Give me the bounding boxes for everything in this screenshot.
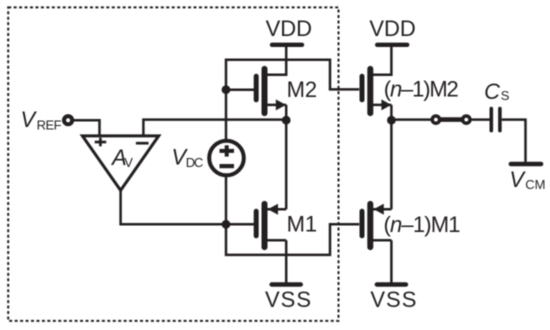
svg-text:VSS: VSS (265, 287, 311, 312)
wire: op-amp - input feedback riser to drain node row (143, 120, 286, 136)
svg-text:(n–1)M2: (n–1)M2 (384, 77, 459, 102)
svg-text:CM: CM (525, 177, 545, 192)
supply VDD left bar (272, 43, 302, 47)
(n-1)M2 gate bar (360, 76, 365, 100)
op-amp U1 (AV) (82, 136, 158, 191)
supply VDD right bar (377, 43, 407, 47)
wire: VDC bottom to gate node B (225, 176, 228, 224)
(n-1)M2 drain line (372, 104, 392, 107)
wire: node D right to switch (391, 118, 431, 121)
M1 gate bar (254, 211, 259, 236)
(n-1)M2 source line (372, 74, 392, 77)
svg-text:VDD: VDD (369, 16, 415, 41)
M1 source stem down (285, 240, 288, 283)
(n-1)M1 drain arrow (374, 204, 384, 215)
(n-1)M2 drain corner down to node D (390, 105, 393, 120)
M1 drain line (266, 208, 286, 211)
node D: output node junction dot (387, 116, 396, 125)
M2 drain arrow (276, 99, 286, 110)
wire: node C down to M1 drain (285, 120, 288, 209)
transistor M1 (NMOS) (226, 204, 286, 283)
op-amp - input mark (136, 142, 149, 145)
(n-1)M1 channel bar (367, 204, 373, 247)
M2 channel bar (262, 69, 268, 113)
transistor (n-1)M1 (NMOS) (362, 204, 391, 283)
svg-text:DC: DC (186, 155, 204, 170)
svg-text:VDD: VDD (266, 16, 312, 41)
wire: gate link from node B down and over to (n-1)M1 gate (226, 224, 359, 255)
svg-text:M2: M2 (287, 77, 318, 102)
(n-1)M1 source stem down (390, 240, 393, 283)
switch contact right (461, 114, 472, 125)
VDC minus mark (220, 164, 235, 168)
svg-text:S: S (501, 88, 510, 103)
op-amp + input mark (95, 138, 107, 147)
svg-text:VSS: VSS (370, 287, 416, 312)
M2 gate wire (226, 88, 255, 91)
node B: op-amp out / M1 gate 4-way junction dot (222, 220, 231, 229)
M2 gate bar (254, 76, 259, 100)
terminal VREF (62, 114, 74, 126)
svg-text:V: V (509, 167, 526, 192)
wire: switch to capacitor (471, 118, 490, 121)
transistor (n-1)M2 (PMOS) (362, 69, 391, 120)
node A: M2 gate / VDC top junction dot (222, 85, 231, 94)
VDC plus mark (220, 145, 235, 156)
M1 channel bar (262, 204, 268, 247)
switch contact left (431, 114, 442, 125)
(n-1)M2 channel bar (367, 69, 373, 113)
M2 drain line (266, 104, 286, 107)
node C: M1/M2 drain junction dot (282, 116, 291, 125)
M1 drain arrow (268, 204, 278, 215)
M1 gate wire (226, 223, 255, 226)
wire: op-amp output down and right to gate node (121, 190, 226, 224)
terminal VCM bar (511, 162, 541, 167)
ground VSS right bar (377, 282, 406, 286)
wire: node A down to VDC plus terminal (225, 90, 228, 140)
M1 source line (266, 239, 286, 242)
CS right plate (498, 109, 502, 131)
(n-1)M1 drain line (372, 208, 392, 211)
transistor M2 (PMOS) (226, 69, 286, 120)
M2 drain corner down to node C (285, 105, 288, 120)
wire: node D down to (n-1)M1 drain (390, 120, 393, 209)
svg-text:V: V (124, 155, 133, 170)
switch lever (439, 117, 464, 122)
wire: VDD left stem (285, 45, 288, 76)
(n-1)M2 drain arrow (381, 99, 391, 110)
wire: VREF terminal to op-amp + input (72, 120, 100, 136)
wire: gate link from node A up and over to (n-1)M2 gate (226, 60, 359, 90)
M2 source line (266, 74, 286, 77)
(n-1)M1 source line (372, 239, 392, 242)
capacitor CS (491, 109, 500, 131)
ground VSS left bar (272, 282, 301, 286)
svg-text:M1: M1 (287, 212, 318, 237)
wire: VDD right stem (390, 45, 393, 76)
svg-text:V: V (21, 107, 38, 132)
svg-text:C: C (484, 79, 500, 104)
svg-text:(n–1)M1: (n–1)M1 (384, 212, 461, 237)
CS left plate (489, 109, 493, 131)
wire: capacitor to VCM terminal (502, 120, 526, 162)
(n-1)M1 gate bar (360, 211, 365, 236)
voltage source VDC (209, 141, 244, 176)
svg-text:REF: REF (37, 117, 62, 132)
dashed enclosure box (8, 7, 338, 321)
